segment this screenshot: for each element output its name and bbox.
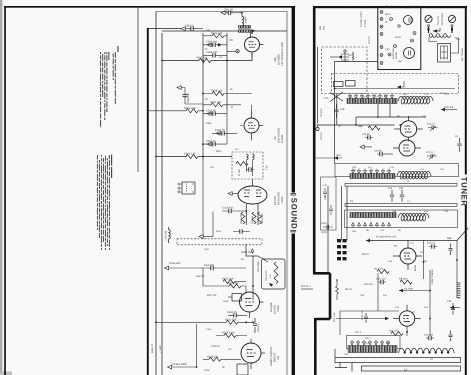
ladder rail B	[226, 33, 228, 111]
bottom coil scallops with dots	[399, 348, 455, 353]
terminal into panel	[316, 127, 319, 130]
svg-text:L1A: L1A	[363, 96, 367, 99]
svg-text:M 180: M 180	[238, 169, 241, 176]
coil L90 vertical	[242, 14, 244, 28]
svg-text:V11: V11	[277, 355, 280, 360]
balun box	[438, 44, 451, 63]
tube V2A	[393, 241, 422, 271]
svg-text:TO AGC: TO AGC	[320, 108, 323, 117]
VHF coil dashed enclosure	[332, 74, 459, 94]
svg-text:1M: 1M	[269, 275, 272, 278]
svg-text:C20: C20	[399, 187, 404, 190]
test point circles on box left edge	[380, 11, 383, 65]
C90A vertical cap w/ arrow	[177, 86, 203, 104]
UHF dashed enclosure	[322, 47, 368, 94]
svg-text:+ 140V: + 140V	[159, 345, 162, 353]
svg-text:C21 1: C21 1	[365, 337, 372, 340]
coil strip 2 hatch	[350, 174, 395, 179]
right edge tick ladder	[457, 282, 461, 299]
svg-text:NR 21M: NR 21M	[437, 16, 440, 25]
wire top horizontal y=31	[162, 30, 287, 32]
vertical wire x=196.5	[196, 324, 198, 367]
left panel misc wires	[203, 160, 246, 292]
tube V8A	[245, 37, 264, 57]
svg-text:C13 2-7: C13 2-7	[427, 123, 436, 126]
B+ rail 1	[137, 7, 139, 172]
connector black squares	[337, 239, 347, 260]
tube V1B	[393, 140, 421, 156]
svg-text:1M: 1M	[219, 56, 222, 59]
svg-text:C313 A05: C313 A05	[222, 207, 234, 210]
svg-text:R315 400: R315 400	[261, 213, 264, 224]
svg-text:C90 05: C90 05	[185, 25, 194, 28]
svg-text:R314 400: R314 400	[240, 213, 243, 224]
interior small terminal circles	[388, 18, 416, 57]
svg-text:C90A 05: C90A 05	[187, 92, 190, 103]
lower notes text block (rotated text streaks)	[97, 155, 111, 251]
svg-text:MWO 10U: MWO 10U	[178, 182, 181, 193]
svg-text:L1B: L1B	[403, 93, 407, 96]
top edge ticks	[386, 6, 416, 8]
wires volume junction	[246, 244, 268, 300]
svg-text:R319: R319	[223, 300, 229, 303]
tube V1A	[394, 117, 422, 141]
svg-text:R318 470K: R318 470K	[222, 331, 235, 334]
notch interior components	[336, 280, 339, 300]
long bar L2	[345, 184, 457, 187]
svg-text:V10B: V10B	[277, 305, 280, 312]
svg-text:C316A 30MF: C316A 30MF	[172, 363, 188, 366]
svg-text:ANT TRANS: ANT TRANS	[461, 48, 464, 61]
antenna arrow	[433, 28, 440, 31]
svg-text:NR 1M: NR 1M	[320, 133, 323, 140]
svg-text:C30: C30	[447, 300, 452, 303]
small box left of V10B	[232, 294, 242, 302]
right page border right, interrupted by TUNER	[465, 6, 467, 175]
svg-text:R309: R309	[206, 122, 212, 125]
tiny labels in box	[385, 13, 402, 63]
wire antenna into box	[429, 38, 459, 54]
electrode dashes in tubes	[409, 18, 412, 56]
antenna coil	[429, 34, 451, 38]
extra micro labels right panel	[344, 93, 449, 356]
wire cap to coil	[234, 12, 243, 14]
coil strip 2 scallops	[397, 172, 431, 180]
right page border left with notch	[314, 6, 330, 375]
transformer T90 windings	[239, 26, 251, 29]
V10A takeoff arrow	[228, 192, 232, 196]
SOUND label in border	[289, 194, 298, 232]
svg-text:VHF IN: VHF IN	[368, 36, 371, 44]
wires tuner mid	[340, 230, 424, 335]
left wires of tuner	[318, 47, 378, 164]
coil assembly 4 outline	[345, 210, 458, 228]
svg-text:C21B: C21B	[321, 231, 327, 234]
OSC arrow label right	[441, 108, 445, 111]
svg-text:V10A: V10A	[281, 196, 284, 203]
svg-text:C21A: C21A	[321, 222, 327, 225]
svg-text:C304 047: C304 047	[206, 51, 218, 54]
svg-text:C318 3: C318 3	[257, 324, 260, 332]
long wire with arrow y=240	[366, 239, 370, 242]
svg-text:ANT INPUT: ANT INPUT	[441, 12, 444, 25]
left page outer border right (thick), interrupted by SOUND	[292, 6, 295, 193]
svg-text:6CG8 OSC: 6CG8 OSC	[392, 48, 395, 59]
inner thin frame right	[286, 12, 288, 375]
coil strip 1 hatch	[347, 99, 397, 104]
svg-text:R11 24 C: R11 24 C	[301, 285, 311, 288]
svg-text:TUNER: TUNER	[460, 177, 469, 207]
svg-text:C18 80: C18 80	[362, 133, 370, 136]
resistor near V1A	[368, 126, 380, 130]
svg-text:C31A 400: C31A 400	[169, 262, 181, 265]
extra tiny labels right panel	[338, 92, 447, 361]
svg-text:L1C: L1C	[445, 93, 449, 96]
grid terminal circle	[236, 50, 239, 53]
svg-text:C136 1M: C136 1M	[361, 311, 364, 320]
svg-text:C320: C320	[204, 369, 210, 372]
slug arrows above strip 1	[349, 94, 394, 99]
svg-text:MX 40: MX 40	[345, 288, 352, 291]
B+ rail 3	[155, 12, 157, 375]
svg-text:S1B: S1B	[324, 195, 327, 200]
components in UHF box	[330, 50, 354, 62]
ladder rail A	[202, 33, 204, 160]
coil strip 4 scallops	[398, 214, 429, 222]
switch section S1A outline box	[321, 177, 337, 230]
B+ rail 2 (thick)	[147, 29, 149, 375]
left verticals	[328, 186, 347, 272]
cap at 241,231	[237, 229, 245, 233]
svg-text:C319 02: C319 02	[211, 345, 220, 348]
small rect component 1	[334, 82, 344, 87]
svg-text:C303 005: C303 005	[206, 41, 218, 44]
volume control box	[262, 259, 286, 289]
svg-text:SOUND: SOUND	[289, 198, 298, 230]
ground arrow left	[199, 235, 203, 239]
svg-text:TP: TP	[394, 245, 397, 248]
antenna terminal circles	[425, 15, 456, 33]
NOTES text block (rotated text streaks)	[101, 46, 118, 128]
svg-text:6EA8: 6EA8	[414, 264, 417, 271]
vertical cap C318	[253, 318, 257, 333]
right page border top	[313, 6, 467, 8]
middle caps C24 C20	[390, 190, 394, 202]
diagonal wire to corner	[457, 228, 468, 241]
scan edge left gray strip	[0, 0, 2, 375]
arrows into V2B	[385, 317, 389, 320]
vertical comp right	[449, 244, 453, 256]
vertical resistor MC312	[252, 212, 256, 224]
strip 4 arrows below	[352, 223, 391, 228]
wire V8A plate	[251, 57, 253, 61]
svg-text:C21 1: C21 1	[355, 331, 362, 334]
svg-text:AGC: AGC	[336, 154, 341, 157]
svg-text:TUNER CONT: TUNER CONT	[360, 11, 363, 27]
coil strip 4 hatch	[350, 213, 396, 218]
tube V2B	[393, 305, 420, 332]
svg-text:C1A: C1A	[324, 97, 329, 100]
svg-text:R88: R88	[358, 125, 363, 128]
left page outer border left	[4, 6, 6, 375]
strip 2 arrows	[352, 169, 391, 174]
svg-text:R317 1M: R317 1M	[207, 294, 216, 297]
extra micro labels left panel	[204, 29, 239, 372]
wire V9 plate up	[251, 105, 253, 111]
scan edge bottom-left gray	[0, 372, 12, 375]
svg-text:MIX: MIX	[398, 60, 402, 63]
wire y=290 with arrow	[399, 289, 403, 292]
svg-text:6W6 GT: 6W6 GT	[151, 344, 154, 353]
cap C13b	[364, 313, 368, 323]
svg-text:1ST SOUND IF AMP: 1ST SOUND IF AMP	[281, 42, 284, 66]
svg-text:R210 VOL: R210 VOL	[265, 269, 268, 281]
coil assembly 2 outline	[335, 164, 459, 177]
svg-text:IF AMP: IF AMP	[281, 134, 284, 143]
B+ rail 4	[161, 33, 163, 375]
tube circle small in box	[404, 16, 413, 25]
arrow at right edge	[450, 306, 454, 309]
svg-text:C28 2.2: C28 2.2	[427, 242, 436, 245]
caps below	[334, 104, 338, 118]
right panel junction dots	[334, 88, 458, 333]
svg-text:C16 80: C16 80	[374, 150, 382, 153]
svg-text:R10 1M: R10 1M	[364, 283, 372, 286]
svg-text:L17B 180: L17B 180	[165, 230, 168, 241]
inner thin frame top	[156, 11, 287, 13]
tube V10B	[240, 292, 264, 318]
svg-text:C17 1-7: C17 1-7	[426, 151, 435, 154]
AGC arrow bottom left	[334, 156, 338, 159]
long bar L3	[345, 204, 457, 207]
svg-text:FINE TUNING: FINE TUNING	[431, 269, 434, 284]
bottom strip arrows	[351, 340, 390, 345]
vertical cap right C6	[457, 138, 461, 152]
extra tiny value labels left panel	[205, 15, 247, 369]
svg-text:R13 3.3K: R13 3.3K	[333, 312, 336, 322]
svg-text:OSC 6/6: OSC 6/6	[444, 106, 454, 109]
svg-text:OSC: OSC	[385, 48, 390, 51]
svg-text:1K: 1K	[205, 98, 208, 101]
svg-text:MC 312: MC 312	[251, 215, 254, 224]
wire to thick rail	[148, 28, 181, 30]
tube V9	[241, 111, 264, 141]
vertical resistor R315	[258, 212, 262, 224]
long bar 14	[362, 366, 461, 371]
bottom box under V11	[237, 364, 248, 375]
svg-text:VOLUME: VOLUME	[257, 261, 260, 272]
vertical resistor R314	[240, 212, 245, 224]
svg-text:R88: R88	[447, 237, 452, 240]
M-box component (left of V10A)	[177, 182, 195, 194]
capacitor C90 top	[226, 11, 234, 15]
tube V10A (big ellipse)	[238, 179, 267, 225]
svg-text:6CG8: 6CG8	[395, 36, 401, 39]
bottom left structures	[335, 349, 352, 372]
left page outer border top	[4, 6, 295, 8]
transformer T10 dashed box	[232, 152, 263, 179]
svg-text:C24: C24	[388, 187, 393, 190]
svg-text:C314: C314	[206, 328, 212, 331]
bottom coil box	[347, 336, 401, 349]
vertical wires	[378, 241, 457, 333]
svg-text:MIXER: MIXER	[395, 52, 398, 59]
svg-text:R9 280: R9 280	[399, 278, 407, 281]
svg-text:T10: T10	[266, 165, 269, 170]
bottom coil strip hatch	[348, 346, 397, 353]
svg-text:MX 10: MX 10	[362, 253, 369, 256]
wires around tubes	[317, 104, 427, 125]
vertical comp right lower	[449, 331, 453, 342]
V8A top lead	[250, 32, 252, 38]
crossing X	[330, 92, 343, 102]
arrow left in enclosure	[397, 85, 401, 88]
svg-text:4 POS: 4 POS	[364, 20, 367, 27]
dashed band above volume	[177, 239, 262, 245]
wire v2b to bars	[407, 282, 457, 336]
extra junction dots left ladder	[147, 28, 254, 368]
wire across enclosure	[334, 88, 455, 90]
trimmer caps top-left of section	[323, 225, 333, 229]
svg-text:6BC8: 6BC8	[385, 13, 391, 16]
coil L17B	[169, 227, 171, 243]
tube V11	[241, 339, 265, 369]
svg-text:R7 39K R9 R4 470: R7 39K R9 R4 470	[376, 236, 397, 239]
tube circle large in box	[404, 48, 415, 59]
svg-text:C1B: C1B	[340, 108, 345, 111]
svg-text:R310: R310	[216, 150, 222, 153]
tuner shield box	[378, 8, 421, 70]
long bar L4	[335, 358, 461, 363]
svg-text:C9 1000: C9 1000	[404, 288, 414, 291]
coil strip 1 scallops	[398, 97, 433, 105]
small rect component 2	[346, 81, 356, 87]
svg-text:C311: C311	[204, 248, 210, 251]
vertical cap pair right side	[451, 303, 455, 315]
svg-text:R313: R313	[216, 230, 222, 233]
top input arrow terminal	[221, 11, 225, 15]
